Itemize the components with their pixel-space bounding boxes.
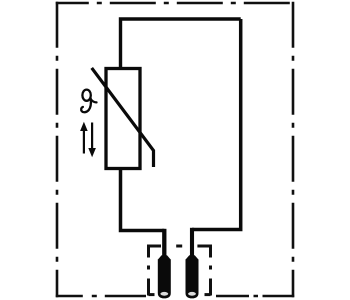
- wire drop left: [162, 229, 166, 257]
- arrow up (variation mark): [80, 122, 88, 154]
- wire drop right: [190, 228, 194, 257]
- wire right branch: [192, 19, 241, 230]
- pin terminal 1 (left): [158, 255, 171, 298]
- arrow down (variation mark): [88, 123, 96, 158]
- outer enclosure dash-dot border: [56, 2, 294, 298]
- pin terminal 2 (right): [186, 255, 199, 298]
- thermistor R1 diagonal stroke with foot: [92, 68, 154, 167]
- wire top loop segment: [121, 19, 241, 69]
- connector outline dash-dot box: [149, 245, 211, 297]
- wire lower left branch: [121, 169, 165, 231]
- resistor R1 (thermistor body): [106, 69, 140, 169]
- label theta (temperature symbol): [81, 90, 96, 113]
